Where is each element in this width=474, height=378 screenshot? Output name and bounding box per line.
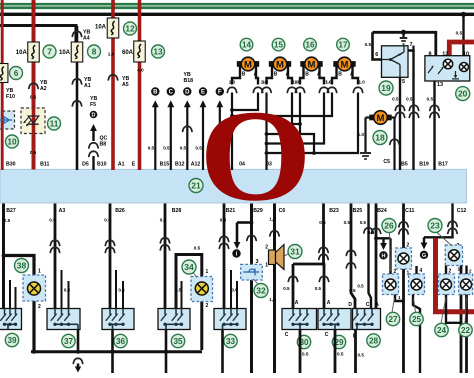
svg-text:10: 10: [463, 51, 469, 57]
svg-text:0.5: 0.5: [365, 42, 372, 47]
svg-text:8: 8: [428, 51, 431, 57]
svg-text:35: 35: [173, 337, 183, 346]
svg-text:20: 20: [458, 89, 468, 99]
svg-text:B19: B19: [419, 161, 429, 167]
svg-text:2: 2: [206, 303, 209, 309]
svg-text:10A: 10A: [95, 25, 107, 31]
svg-text:12: 12: [442, 51, 448, 57]
svg-text:0.5: 0.5: [30, 95, 37, 100]
svg-text:B: B: [305, 72, 309, 78]
svg-text:0.5: 0.5: [160, 218, 167, 223]
svg-text:2: 2: [469, 269, 472, 274]
svg-text:F10: F10: [6, 94, 15, 100]
svg-text:0.5: 0.5: [30, 150, 37, 155]
svg-text:B26: B26: [115, 208, 125, 214]
svg-text:B28: B28: [172, 208, 182, 214]
svg-text:1: 1: [265, 263, 268, 269]
svg-text:B15: B15: [160, 161, 170, 167]
svg-text:B8: B8: [100, 142, 107, 148]
svg-text:0.5: 0.5: [344, 220, 351, 225]
svg-text:6: 6: [14, 68, 19, 78]
svg-text:1.0: 1.0: [108, 52, 115, 57]
svg-text:D5: D5: [82, 161, 89, 167]
svg-text:C: C: [169, 90, 174, 96]
svg-text:14: 14: [242, 40, 251, 49]
svg-text:0.5: 0.5: [406, 96, 413, 101]
svg-text:7: 7: [47, 46, 52, 56]
svg-text:19: 19: [381, 83, 391, 93]
svg-text:H: H: [381, 253, 385, 259]
svg-text:B25: B25: [353, 208, 363, 214]
svg-text:2: 2: [265, 245, 268, 251]
svg-text:0.5: 0.5: [315, 286, 322, 291]
svg-text:A: A: [327, 300, 331, 306]
svg-text:0.5: 0.5: [180, 145, 187, 150]
svg-text:A1: A1: [84, 83, 91, 89]
svg-text:39: 39: [7, 336, 17, 345]
svg-text:0.5: 0.5: [456, 31, 463, 36]
svg-text:D: D: [185, 90, 190, 96]
svg-text:60A: 60A: [122, 50, 134, 56]
svg-text:0.5: 0.5: [368, 230, 375, 235]
svg-text:YB: YB: [90, 96, 97, 102]
svg-text:0.5: 0.5: [392, 96, 399, 101]
svg-text:D: D: [92, 112, 96, 118]
svg-text:YB: YB: [84, 77, 91, 83]
svg-text:0.5: 0.5: [163, 145, 170, 150]
svg-text:32: 32: [256, 286, 266, 296]
svg-text:1.0: 1.0: [358, 132, 365, 137]
svg-text:1: 1: [398, 295, 401, 300]
svg-text:YB: YB: [122, 76, 129, 82]
svg-text:B17: B17: [438, 161, 448, 167]
svg-text:M: M: [308, 59, 316, 70]
svg-text:D: D: [348, 302, 352, 308]
svg-text:M: M: [276, 59, 284, 70]
svg-text:C: C: [366, 302, 370, 308]
svg-text:26: 26: [384, 221, 394, 231]
svg-text:0.5: 0.5: [64, 288, 71, 293]
svg-text:YB: YB: [40, 80, 47, 86]
svg-text:2: 2: [449, 269, 452, 275]
svg-text:2: 2: [38, 304, 41, 310]
svg-text:M: M: [244, 59, 252, 70]
svg-text:34: 34: [184, 262, 194, 272]
svg-text:4.0: 4.0: [137, 68, 144, 73]
svg-text:18: 18: [375, 133, 385, 143]
svg-text:1: 1: [38, 269, 41, 275]
svg-text:17: 17: [339, 40, 348, 49]
svg-text:G: G: [422, 253, 426, 259]
svg-text:0.5: 0.5: [302, 352, 309, 357]
svg-text:0.5: 0.5: [194, 246, 201, 251]
svg-text:4: 4: [420, 268, 423, 274]
svg-text:22: 22: [461, 326, 471, 335]
svg-text:0.5: 0.5: [49, 218, 56, 223]
svg-text:A3: A3: [59, 208, 66, 214]
svg-text:B30: B30: [6, 161, 16, 167]
svg-text:1,0: 1,0: [269, 297, 276, 302]
svg-text:0.5: 0.5: [148, 145, 155, 150]
svg-text:6: 6: [375, 52, 378, 58]
svg-text:A4: A4: [83, 36, 90, 42]
svg-text:QC: QC: [100, 136, 108, 142]
svg-text:0.5: 0.5: [427, 96, 434, 101]
svg-text:15: 15: [274, 40, 283, 49]
svg-text:0.5: 0.5: [319, 220, 326, 225]
svg-text:13: 13: [153, 46, 163, 56]
svg-text:C5: C5: [383, 159, 390, 165]
svg-text:A1: A1: [118, 161, 125, 167]
svg-text:0.5: 0.5: [4, 218, 11, 223]
svg-text:10A: 10A: [16, 50, 28, 56]
svg-text:A: A: [375, 302, 379, 308]
svg-text:13: 13: [437, 82, 443, 88]
svg-text:7: 7: [409, 42, 412, 48]
svg-text:28: 28: [369, 336, 379, 345]
svg-text:0.5: 0.5: [118, 288, 125, 293]
svg-text:O: O: [199, 83, 312, 228]
svg-text:37: 37: [64, 337, 74, 346]
svg-text:0.5: 0.5: [283, 286, 290, 291]
svg-text:10: 10: [7, 136, 17, 146]
svg-text:B12: B12: [175, 161, 185, 167]
svg-text:36: 36: [116, 337, 126, 346]
svg-text:33: 33: [226, 337, 236, 346]
svg-text:B: B: [338, 72, 342, 78]
svg-text:1.0: 1.0: [325, 80, 332, 85]
svg-text:0.5: 0.5: [104, 218, 111, 223]
svg-text:24: 24: [437, 326, 447, 335]
svg-text:0.5: 0.5: [360, 220, 367, 225]
svg-text:YB: YB: [83, 30, 90, 36]
svg-text:8: 8: [92, 46, 97, 56]
svg-text:B5: B5: [401, 161, 408, 167]
svg-text:B18: B18: [184, 78, 194, 84]
svg-text:10A: 10A: [59, 50, 71, 56]
svg-text:B27: B27: [6, 208, 16, 214]
svg-text:0.5: 0.5: [231, 288, 238, 293]
svg-text:B11: B11: [40, 161, 49, 167]
svg-text:A5: A5: [122, 82, 129, 88]
svg-text:25: 25: [412, 315, 422, 324]
svg-text:B23: B23: [329, 208, 339, 214]
svg-text:16: 16: [306, 40, 315, 49]
svg-text:B24: B24: [377, 208, 387, 214]
svg-text:23: 23: [430, 221, 440, 231]
svg-text:0.5: 0.5: [358, 353, 365, 358]
svg-text:A: A: [295, 300, 299, 306]
svg-text:0.5: 0.5: [349, 288, 356, 293]
svg-text:E: E: [132, 161, 136, 167]
svg-text:C12: C12: [457, 208, 467, 214]
svg-text:12: 12: [125, 23, 135, 33]
svg-text:M: M: [377, 113, 385, 124]
svg-text:B: B: [242, 72, 246, 78]
svg-text:27: 27: [388, 315, 398, 324]
svg-text:YB: YB: [184, 72, 191, 78]
svg-text:B: B: [153, 90, 158, 96]
svg-text:0.5: 0.5: [357, 284, 364, 289]
svg-text:0.5: 0.5: [337, 352, 344, 357]
svg-text:31: 31: [290, 247, 300, 257]
svg-text:C11: C11: [405, 208, 414, 214]
svg-text:A2: A2: [40, 86, 47, 92]
svg-text:1.0: 1.0: [359, 80, 366, 85]
svg-text:C: C: [325, 332, 329, 338]
svg-text:C: C: [285, 332, 289, 338]
svg-text:38: 38: [17, 261, 27, 271]
svg-text:M: M: [341, 59, 349, 70]
svg-text:11: 11: [50, 118, 59, 128]
svg-text:B10: B10: [97, 161, 107, 167]
svg-text:B: B: [274, 72, 278, 78]
svg-text:YB: YB: [6, 88, 13, 94]
svg-text:F5: F5: [90, 102, 96, 108]
svg-text:0.5: 0.5: [175, 288, 182, 293]
svg-text:1: 1: [206, 269, 209, 275]
svg-text:5: 5: [402, 79, 405, 85]
